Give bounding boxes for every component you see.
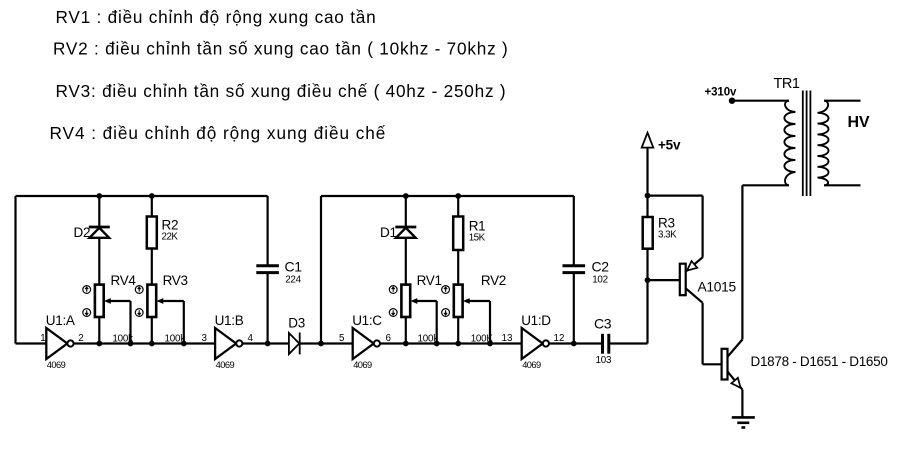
wire +310v to primary <box>732 100 789 102</box>
capacitor C2 <box>563 259 610 286</box>
power +5v symbol <box>642 133 681 153</box>
svg-text:13: 13 <box>502 333 513 344</box>
node RV2 lead on signal line <box>455 341 461 347</box>
wire base branch vertical <box>646 280 648 343</box>
wire R2 branch upper <box>151 196 153 217</box>
wire box1 top rail <box>16 195 268 197</box>
wire base to Q1 <box>648 279 680 281</box>
RV1 adjust-down mark <box>389 309 397 317</box>
svg-text:22K: 22K <box>162 231 179 242</box>
svg-text:D1: D1 <box>380 225 397 240</box>
svg-text:C2: C2 <box>592 259 610 275</box>
node RV1 lead on signal line <box>403 341 409 347</box>
wire box1 right edge lower (from C1) <box>267 273 269 344</box>
RV3 adjust-down mark <box>135 309 143 317</box>
RV2 adjust-down mark <box>442 309 450 317</box>
capacitor C3 <box>594 316 612 367</box>
capacitor C1 <box>256 259 302 286</box>
RV2 adjust-up mark <box>442 286 450 294</box>
transistor Q1 A1015 <box>680 257 737 303</box>
svg-text:R1: R1 <box>469 219 486 234</box>
svg-text:15K: 15K <box>469 232 486 243</box>
wire secondary bottom (HV) <box>824 184 861 186</box>
wire RV4 lower lead <box>98 317 100 344</box>
svg-text:2: 2 <box>78 333 83 344</box>
wire RV3 lower lead <box>151 317 153 344</box>
node RV3 lead on signal line <box>149 341 155 347</box>
wire +5v to emitter branch <box>648 195 703 197</box>
svg-text:224: 224 <box>285 275 301 286</box>
svg-text:+5v: +5v <box>658 138 681 153</box>
svg-text:TR1: TR1 <box>774 76 800 92</box>
wire secondary top (HV) <box>824 100 861 102</box>
wire R3 to base node <box>646 249 648 280</box>
svg-text:5: 5 <box>339 333 345 344</box>
svg-text:RV1: RV1 <box>417 273 442 288</box>
wire Q1 emitter vertical <box>701 196 703 258</box>
wire U1:D output <box>549 342 602 344</box>
wire D3 to box2 <box>301 342 353 344</box>
svg-text:6: 6 <box>386 333 392 344</box>
node RV3 wiper on signal line <box>181 341 187 347</box>
wire box2 right edge upper (to C2) <box>573 196 575 266</box>
ground <box>732 417 755 427</box>
node top rail R1 <box>455 193 461 199</box>
potentiometer RV2 <box>454 273 506 344</box>
diode D1 <box>380 225 416 240</box>
svg-text:D2: D2 <box>74 225 91 240</box>
node top rail D2 <box>96 193 102 199</box>
svg-text:C3: C3 <box>594 316 612 332</box>
wire R1 to RV2 <box>457 250 459 285</box>
svg-text:U1:D: U1:D <box>521 313 551 328</box>
svg-text:4069: 4069 <box>522 360 541 370</box>
node +5v tee <box>645 193 651 199</box>
svg-text:12: 12 <box>554 333 565 344</box>
svg-text:U1:A: U1:A <box>46 313 75 328</box>
wire box2 top rail <box>321 195 574 197</box>
potentiometer RV4 <box>95 273 137 344</box>
svg-text:4069: 4069 <box>47 360 66 370</box>
wire D1 branch upper <box>405 196 407 227</box>
svg-text:R3: R3 <box>658 216 675 231</box>
node C2 bottom junction <box>571 341 577 347</box>
wire RV1 lower lead <box>405 317 407 344</box>
node RV4 wiper on signal line <box>128 341 134 347</box>
wire primary bottom stub <box>742 184 789 186</box>
wire node to R3 <box>646 196 648 217</box>
wire Q1 collector vertical <box>701 303 703 365</box>
resistor R3 <box>643 216 677 249</box>
svg-text:102: 102 <box>592 275 608 286</box>
wire U1:B output <box>242 342 289 344</box>
wire C3 to base branch <box>609 342 648 344</box>
wire +5v down to node <box>646 148 648 196</box>
diode D3 <box>288 316 305 355</box>
RV4 adjust-down mark <box>83 309 91 317</box>
svg-text:3.3K: 3.3K <box>658 229 677 240</box>
svg-text:+310v: +310v <box>705 87 738 99</box>
RV1 adjust-up mark <box>389 286 397 294</box>
potentiometer RV1 <box>401 273 441 344</box>
svg-text:HV: HV <box>848 114 870 131</box>
svg-text:A1015: A1015 <box>698 280 737 295</box>
svg-text:RV4: RV4 <box>111 273 137 288</box>
wire box1 left edge <box>14 196 16 344</box>
wire Q1 collector to Q2 base <box>703 363 722 365</box>
node box2 left edge junction <box>318 341 324 347</box>
svg-text:D1878 - D1651 - D1650: D1878 - D1651 - D1650 <box>751 354 888 369</box>
potentiometer RV3 <box>147 273 187 344</box>
svg-text:1: 1 <box>40 333 45 344</box>
resistor R2 <box>147 217 179 249</box>
node RV4 lead on signal line <box>96 341 102 347</box>
svg-text:4069: 4069 <box>353 360 372 370</box>
wire Q2 collector vertical to transformer <box>741 185 743 339</box>
wire U1:A output to U1:B input <box>74 342 216 344</box>
svg-text:RV2 : điều chỉnh tần số xung c: RV2 : điều chỉnh tần số xung cao tần ( 1… <box>53 39 509 59</box>
wire R1 branch upper <box>457 196 459 217</box>
node top rail D1 <box>403 193 409 199</box>
wire U1:C output to U1:D input <box>380 342 522 344</box>
inverter U1:C <box>352 313 382 370</box>
diode D2 <box>74 225 110 240</box>
RV4 adjust-up mark <box>83 286 91 294</box>
node base junction <box>645 277 651 283</box>
transformer TR1 <box>774 76 829 196</box>
wire Q2 emitter to ground <box>741 390 743 418</box>
inverter U1:A <box>46 313 75 370</box>
wire RV2 lower lead <box>457 317 459 344</box>
svg-text:U1:B: U1:B <box>215 313 244 328</box>
wire D1 to RV1 <box>405 238 407 285</box>
wire box1 right edge upper (to C1) <box>267 196 269 266</box>
svg-text:4: 4 <box>248 333 254 344</box>
wire U1:A input <box>16 342 47 344</box>
wire box2 left edge <box>320 196 322 344</box>
svg-text:3: 3 <box>202 333 208 344</box>
svg-text:D3: D3 <box>288 316 305 331</box>
svg-text:RV3: RV3 <box>163 273 188 288</box>
wire box2 right edge lower (from C2) <box>573 273 575 344</box>
svg-text:103: 103 <box>596 355 612 366</box>
svg-text:RV2: RV2 <box>481 273 506 288</box>
svg-text:C1: C1 <box>285 259 303 275</box>
RV3 adjust-up mark <box>135 286 143 294</box>
svg-text:R2: R2 <box>162 218 179 233</box>
wire R2 to RV3 <box>151 249 153 285</box>
transistor Q2 D1878 <box>722 340 888 390</box>
inverter U1:D <box>521 313 551 370</box>
node RV1 wiper on signal line <box>434 341 440 347</box>
wire D2 branch upper <box>98 196 100 227</box>
svg-text:RV3: điều chỉnh tần số xung đi: RV3: điều chỉnh tần số xung điều chế ( 4… <box>56 81 507 101</box>
node C1 bottom junction <box>265 341 271 347</box>
svg-text:RV1 : điều chỉnh độ rộng xung: RV1 : điều chỉnh độ rộng xung cao tần <box>56 7 377 27</box>
power +310v terminal <box>705 87 738 104</box>
wire D2 to RV4 <box>98 238 100 285</box>
node RV2 wiper on signal line <box>487 341 493 347</box>
svg-text:4069: 4069 <box>216 360 235 370</box>
svg-text:RV4 : điều chỉnh độ rộng xung: RV4 : điều chỉnh độ rộng xung điều chế <box>50 123 387 143</box>
svg-text:U1:C: U1:C <box>352 313 382 328</box>
node top rail R2 <box>149 193 155 199</box>
inverter U1:B <box>215 313 244 370</box>
resistor R1 <box>453 217 485 251</box>
